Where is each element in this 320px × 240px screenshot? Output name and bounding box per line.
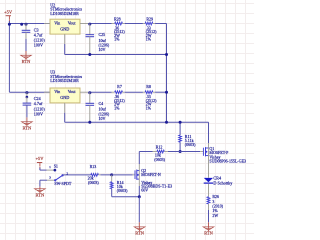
svg-text:SW-SPDT: SW-SPDT bbox=[54, 181, 71, 186]
svg-text:GND: GND bbox=[60, 95, 69, 100]
svg-text:60V: 60V bbox=[141, 187, 148, 192]
svg-text:R29: R29 bbox=[146, 16, 153, 21]
svg-text:S1: S1 bbox=[54, 164, 58, 169]
svg-text:SUD08P06-155L-GE3: SUD08P06-155L-GE3 bbox=[209, 159, 246, 164]
svg-text:R28: R28 bbox=[114, 16, 121, 21]
svg-text:Vin: Vin bbox=[54, 20, 61, 25]
svg-text:1%: 1% bbox=[146, 105, 152, 110]
svg-text:(0603): (0603) bbox=[88, 180, 99, 185]
svg-text:R7: R7 bbox=[117, 84, 122, 89]
svg-text:Vout: Vout bbox=[68, 89, 77, 94]
svg-text:100V: 100V bbox=[34, 111, 43, 116]
svg-text:RTN: RTN bbox=[135, 231, 144, 236]
svg-text:R8: R8 bbox=[146, 84, 151, 89]
svg-text:Vout: Vout bbox=[68, 20, 77, 25]
svg-text:D Schottky: D Schottky bbox=[213, 180, 233, 185]
svg-text:RTN: RTN bbox=[22, 59, 31, 64]
svg-text:+5V: +5V bbox=[4, 9, 13, 14]
svg-text:(0603): (0603) bbox=[117, 188, 128, 193]
svg-text:3: 3 bbox=[49, 175, 51, 179]
svg-text:C4: C4 bbox=[99, 101, 104, 106]
svg-text:10V: 10V bbox=[99, 116, 106, 121]
svg-text:(0603): (0603) bbox=[154, 157, 165, 162]
svg-text:Vin: Vin bbox=[54, 89, 61, 94]
svg-text:R12: R12 bbox=[156, 144, 163, 149]
svg-text:1%: 1% bbox=[146, 37, 152, 42]
svg-text:GND: GND bbox=[60, 26, 69, 31]
svg-text:LD1085D2M18R: LD1085D2M18R bbox=[50, 11, 79, 16]
svg-text:1%: 1% bbox=[114, 37, 120, 42]
svg-text:C25: C25 bbox=[99, 32, 106, 37]
svg-text:10V: 10V bbox=[99, 47, 106, 52]
svg-text:2W: 2W bbox=[212, 213, 218, 218]
svg-text:1%: 1% bbox=[114, 105, 120, 110]
svg-text:MOSFET-N: MOSFET-N bbox=[141, 172, 161, 177]
svg-text:1: 1 bbox=[49, 165, 51, 169]
svg-text:+5V: +5V bbox=[36, 156, 45, 161]
svg-text:RTN: RTN bbox=[36, 192, 45, 197]
svg-text:LD1085D2M18R: LD1085D2M18R bbox=[50, 78, 79, 83]
svg-text:RTN: RTN bbox=[204, 231, 213, 236]
svg-text:100V: 100V bbox=[34, 43, 43, 48]
svg-text:RTN: RTN bbox=[23, 125, 32, 130]
svg-text:(0603): (0603) bbox=[185, 142, 196, 147]
svg-text:R13: R13 bbox=[90, 164, 97, 169]
